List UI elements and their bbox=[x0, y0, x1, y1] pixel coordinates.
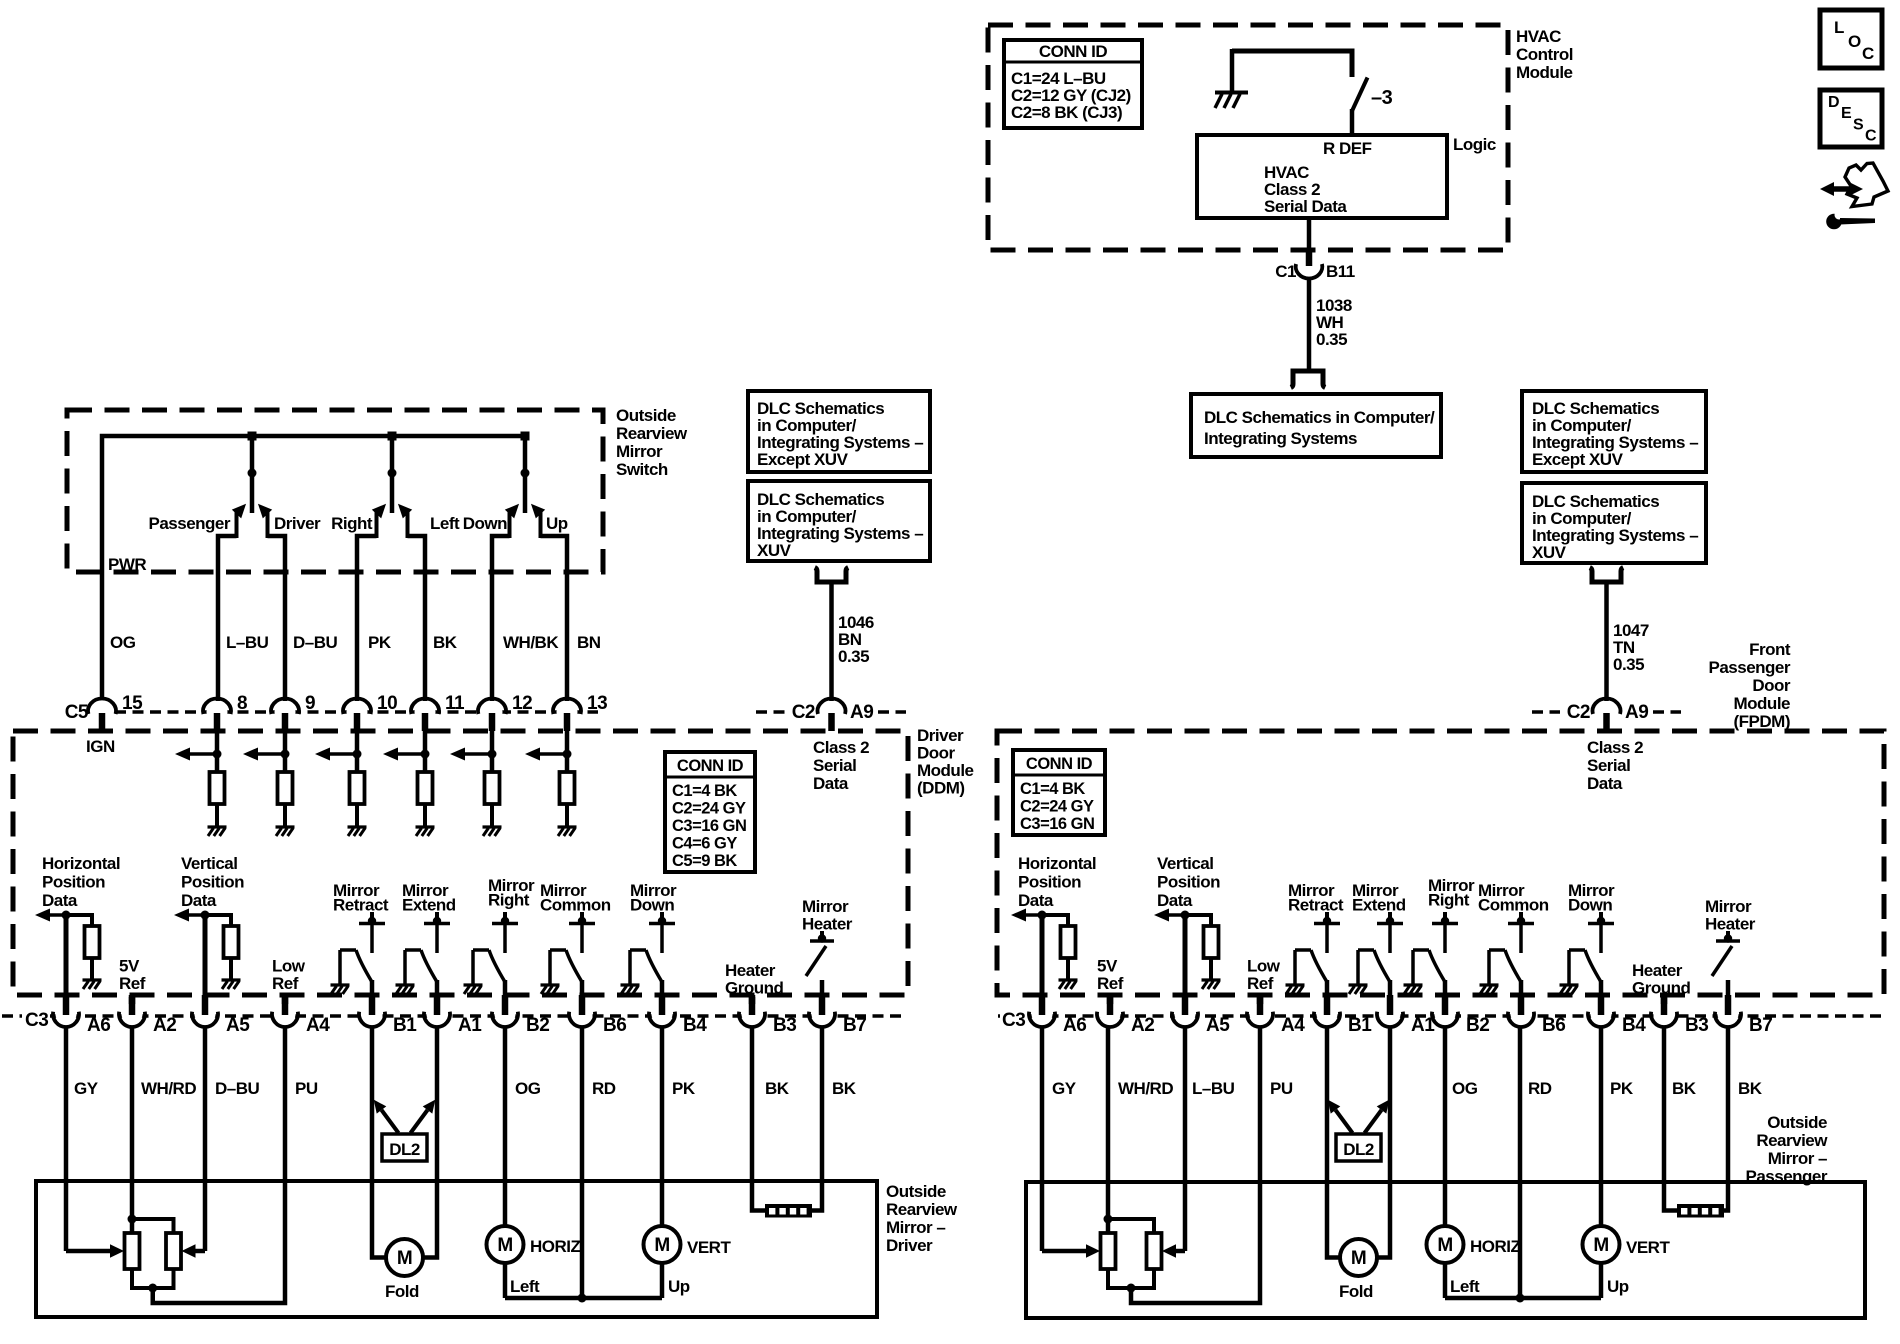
svg-text:Common: Common bbox=[540, 896, 611, 915]
svg-text:15: 15 bbox=[122, 693, 143, 714]
wire switch Right to pin bbox=[357, 536, 377, 701]
svg-text:Position: Position bbox=[181, 873, 244, 892]
wire pot bottoms join bbox=[1108, 1269, 1154, 1288]
svg-text:CONN ID: CONN ID bbox=[1026, 755, 1093, 773]
pin B6 (DDM) bbox=[569, 995, 626, 1036]
connector row C3 dashed line (FPDM) bbox=[998, 1014, 1000, 1018]
switch Mirror Right (DDM) bbox=[464, 876, 536, 1014]
svg-text:L: L bbox=[1834, 18, 1844, 37]
switch Right/Left common pole bbox=[388, 436, 397, 513]
icon DESC bbox=[1820, 90, 1882, 147]
stub 5V Ref A2 (DDM) bbox=[129, 997, 136, 1013]
switch blade Driver bbox=[258, 504, 272, 538]
Vertical position data sensor branch (FPDM) bbox=[1154, 854, 1221, 1014]
svg-text:A4: A4 bbox=[1281, 1015, 1305, 1036]
svg-text:A2: A2 bbox=[153, 1015, 176, 1036]
svg-text:A5: A5 bbox=[226, 1015, 250, 1036]
wire switch Up to pin bbox=[541, 536, 568, 701]
svg-text:PK: PK bbox=[368, 633, 392, 652]
svg-text:BK: BK bbox=[765, 1079, 790, 1098]
svg-text:WH/BK: WH/BK bbox=[503, 633, 559, 652]
connector pin C1 B11 bbox=[1275, 250, 1355, 281]
svg-text:0.35: 0.35 bbox=[1613, 655, 1644, 674]
svg-text:B2: B2 bbox=[1466, 1015, 1489, 1036]
svg-text:HVAC: HVAC bbox=[1516, 27, 1561, 46]
svg-text:Down: Down bbox=[1568, 896, 1612, 915]
svg-text:L–BU: L–BU bbox=[226, 633, 269, 652]
pin B2 (FPDM) bbox=[1432, 995, 1489, 1036]
svg-text:A2: A2 bbox=[1131, 1015, 1154, 1036]
svg-text:R DEF: R DEF bbox=[1323, 139, 1372, 158]
switch Mirror Common (FPDM) bbox=[1478, 881, 1549, 1014]
wire switch Driver to pin bbox=[268, 536, 286, 701]
svg-text:Class 2: Class 2 bbox=[1587, 738, 1643, 757]
label wire colors FPDM outputs bbox=[1052, 1079, 1763, 1098]
svg-text:C1=4 BK: C1=4 BK bbox=[1020, 780, 1085, 798]
svg-text:Heater: Heater bbox=[802, 915, 853, 934]
svg-text:Low: Low bbox=[272, 957, 306, 976]
switch blade Right bbox=[372, 504, 386, 538]
svg-text:C4=6 GY: C4=6 GY bbox=[672, 835, 737, 853]
wire OG to horiz motor (passenger) bbox=[1443, 1026, 1448, 1226]
motor M HORIZ (driver) bbox=[487, 1226, 581, 1263]
Vertical position data sensor branch (DDM) bbox=[174, 854, 244, 1014]
wire switch Passenger to pin bbox=[218, 536, 237, 701]
pin 13 (switch to DDM) bbox=[553, 693, 607, 731]
svg-text:C1=4 BK: C1=4 BK bbox=[672, 782, 737, 800]
svg-text:M: M bbox=[497, 1235, 512, 1256]
svg-text:Position: Position bbox=[1157, 873, 1220, 892]
pin B4 (DDM) bbox=[649, 995, 707, 1036]
svg-text:Module: Module bbox=[1734, 694, 1791, 713]
switch Mirror Right (FPDM) bbox=[1404, 876, 1476, 1014]
pin B7 (FPDM) bbox=[1715, 995, 1772, 1036]
svg-text:PU: PU bbox=[1270, 1079, 1293, 1098]
wire common Left-Up bus bbox=[505, 1296, 662, 1301]
svg-text:WH/RD: WH/RD bbox=[1118, 1079, 1173, 1098]
table CONN ID (FPDM) bbox=[1013, 750, 1105, 835]
pin 12 (switch to DDM) bbox=[478, 693, 532, 731]
connector flank dashes C2/A9 right bbox=[1532, 710, 1560, 714]
svg-text:Data: Data bbox=[1157, 891, 1193, 910]
svg-text:Fold: Fold bbox=[385, 1282, 419, 1301]
svg-text:GY: GY bbox=[1052, 1079, 1077, 1098]
pin A4 (FPDM) bbox=[1247, 995, 1305, 1036]
wire WH/RD to position sensor bbox=[1106, 1026, 1111, 1233]
pin 8 (switch to DDM) bbox=[203, 693, 247, 731]
module HVAC Control Module dashed box bbox=[988, 25, 1508, 250]
svg-text:Up: Up bbox=[668, 1277, 690, 1296]
switch blade Up bbox=[531, 504, 545, 538]
wire A1 to fold motor (passenger) bbox=[1377, 1026, 1390, 1258]
svg-text:BK: BK bbox=[1738, 1079, 1763, 1098]
svg-text:B7: B7 bbox=[1749, 1015, 1772, 1036]
svg-text:Outside: Outside bbox=[616, 406, 676, 425]
pin B4 (FPDM) bbox=[1588, 995, 1646, 1036]
svg-text:Serial: Serial bbox=[1587, 756, 1630, 775]
icon LOC bbox=[1820, 10, 1882, 68]
wire vert motor to Up node (passenger) bbox=[1601, 1263, 1629, 1298]
svg-text:Passenger: Passenger bbox=[149, 514, 231, 533]
svg-text:Passenger: Passenger bbox=[1746, 1167, 1828, 1186]
svg-text:Ground: Ground bbox=[1632, 979, 1690, 998]
svg-text:Retract: Retract bbox=[1288, 896, 1344, 915]
svg-text:WH/RD: WH/RD bbox=[141, 1079, 196, 1098]
svg-text:Control: Control bbox=[1516, 45, 1573, 64]
svg-text:D–BU: D–BU bbox=[293, 633, 338, 652]
wire 1047 TN 0.35 bbox=[1607, 582, 1649, 701]
svg-text:DL2: DL2 bbox=[1343, 1140, 1374, 1159]
motor M VERT (driver) bbox=[644, 1226, 732, 1263]
svg-text:Data: Data bbox=[813, 774, 849, 793]
svg-text:L–BU: L–BU bbox=[1192, 1079, 1235, 1098]
wire ground to switch R DEF bbox=[1232, 51, 1352, 77]
svg-text:Heater: Heater bbox=[725, 961, 776, 980]
wire BK to heater element (left) bbox=[752, 1026, 765, 1211]
svg-text:M: M bbox=[1593, 1235, 1608, 1256]
pin B1 (FPDM) bbox=[1314, 995, 1372, 1036]
svg-text:8: 8 bbox=[237, 693, 247, 714]
svg-text:XUV: XUV bbox=[757, 541, 792, 560]
svg-text:PK: PK bbox=[672, 1079, 696, 1098]
svg-text:Ref: Ref bbox=[272, 974, 299, 993]
svg-text:Fold: Fold bbox=[1339, 1282, 1373, 1301]
stub Heater Ground B3 (DDM) bbox=[749, 997, 756, 1013]
wire junction to right pot element bbox=[132, 1219, 174, 1233]
svg-text:B3: B3 bbox=[1685, 1015, 1708, 1036]
icon shortcut arrows and wrench bbox=[1820, 163, 1888, 229]
ignition feed resistor to ground (wire x=217) bbox=[175, 729, 227, 836]
wire switch Down to pin bbox=[492, 536, 510, 701]
svg-text:C2: C2 bbox=[1567, 702, 1590, 723]
Horizontal position data sensor branch (FPDM) bbox=[1011, 854, 1096, 1014]
pin B3 (FPDM) bbox=[1651, 995, 1708, 1036]
svg-text:Logic: Logic bbox=[1453, 135, 1496, 154]
svg-text:Outside: Outside bbox=[886, 1182, 946, 1201]
svg-text:XUV: XUV bbox=[1532, 543, 1567, 562]
node RD junction (driver) bbox=[578, 1294, 587, 1303]
svg-text:Right: Right bbox=[1428, 891, 1470, 910]
box DLC Schematics in Computer/Integrating Systems bbox=[1191, 394, 1441, 457]
ignition feed resistor to ground (wire x=285) bbox=[243, 729, 295, 836]
svg-text:M: M bbox=[1437, 1235, 1452, 1256]
wire OG to horiz motor bbox=[503, 1026, 508, 1226]
wire GY to position sensor bbox=[1040, 1026, 1045, 1251]
svg-text:CONN ID: CONN ID bbox=[1039, 42, 1108, 61]
svg-text:D: D bbox=[1828, 94, 1839, 111]
module Outside Rearview Mirror Passenger box bbox=[1026, 1182, 1865, 1318]
wire BK to heater element (right) bbox=[812, 1026, 822, 1211]
svg-text:O: O bbox=[1848, 32, 1861, 51]
box DLC Schematics XUV (right) bbox=[1522, 483, 1706, 563]
svg-text:Rearview: Rearview bbox=[1756, 1131, 1828, 1150]
pin 10 (switch to DDM) bbox=[343, 693, 397, 731]
stub Low Ref A4 (DDM) bbox=[282, 997, 289, 1013]
switch Mirror Extend (DDM) bbox=[396, 881, 456, 1014]
wire WH/RD to position sensor bbox=[130, 1026, 135, 1233]
svg-text:A6: A6 bbox=[1063, 1015, 1086, 1036]
svg-text:Mirror: Mirror bbox=[802, 897, 849, 916]
switch blade Down bbox=[505, 504, 519, 538]
svg-text:Horizontal: Horizontal bbox=[1018, 854, 1096, 873]
svg-text:C2=24 GY: C2=24 GY bbox=[1020, 798, 1094, 816]
svg-text:S: S bbox=[1853, 117, 1864, 134]
pin A4 (DDM) bbox=[272, 995, 330, 1036]
svg-text:Heater: Heater bbox=[1705, 915, 1756, 934]
svg-text:Up: Up bbox=[1607, 1277, 1629, 1296]
svg-text:Left: Left bbox=[510, 1277, 540, 1296]
module Outside Rearview Mirror Switch dashed box bbox=[67, 410, 603, 572]
svg-text:B7: B7 bbox=[843, 1015, 866, 1036]
switch blade Left bbox=[398, 504, 412, 538]
connector bracket below DLC (right) bbox=[1590, 568, 1623, 583]
svg-text:Position: Position bbox=[42, 873, 105, 892]
stub Low Ref A4 (FPDM) bbox=[1257, 997, 1264, 1013]
module Outside Rearview Mirror Driver box bbox=[36, 1181, 877, 1317]
switch Down/Up common pole bbox=[521, 436, 530, 513]
wire junction to right pot element bbox=[1108, 1219, 1154, 1233]
svg-text:C2=24 GY: C2=24 GY bbox=[672, 800, 746, 818]
wire 1038 WH 0.35 bbox=[1309, 278, 1352, 369]
svg-text:Outside: Outside bbox=[1767, 1113, 1827, 1132]
svg-text:Door: Door bbox=[1752, 676, 1791, 695]
mirror heater element bbox=[765, 1204, 812, 1218]
svg-text:C1: C1 bbox=[1275, 262, 1296, 281]
svg-text:OG: OG bbox=[1452, 1079, 1478, 1098]
switch Mirror Heater (DDM) bbox=[802, 897, 853, 1014]
wire GY to position sensor bbox=[64, 1026, 69, 1251]
svg-text:11: 11 bbox=[445, 693, 465, 714]
svg-text:Serial: Serial bbox=[813, 756, 856, 775]
svg-text:Class 2: Class 2 bbox=[813, 738, 869, 757]
connector flank dashes C2/A9 bbox=[756, 710, 786, 714]
svg-text:Front: Front bbox=[1749, 640, 1791, 659]
module Front Passenger Door Module dashed box bbox=[997, 731, 1884, 995]
wire B1 to fold motor (passenger) bbox=[1327, 1026, 1340, 1258]
box DLC Schematics Except XUV (left) bbox=[748, 391, 930, 472]
svg-text:Driver: Driver bbox=[917, 726, 964, 745]
module Driver Door Module dashed box bbox=[13, 731, 908, 995]
switch Mirror Down (FPDM) bbox=[1560, 881, 1616, 1014]
reference box DL2 (driver) bbox=[382, 1134, 427, 1161]
node RD junction (passenger) bbox=[1516, 1294, 1525, 1303]
connector bracket to DLC box bbox=[1291, 371, 1325, 388]
svg-text:Passenger: Passenger bbox=[1709, 658, 1791, 677]
wire horiz motor to Left node bbox=[505, 1263, 540, 1298]
wire BK to heater element right (passenger) bbox=[1724, 1026, 1728, 1211]
svg-text:Left: Left bbox=[430, 514, 460, 533]
switch blade Passenger bbox=[232, 504, 246, 538]
svg-text:Vertical: Vertical bbox=[1157, 854, 1214, 873]
connector row C3 dashed line (DDM) bbox=[2, 1014, 22, 1018]
svg-text:Left: Left bbox=[1450, 1277, 1480, 1296]
wire horiz motor to Left node (passenger) bbox=[1445, 1263, 1480, 1298]
svg-text:5V: 5V bbox=[1097, 957, 1118, 976]
wire vert motor to Up node bbox=[662, 1263, 690, 1298]
switch Passenger/Driver common pole bbox=[248, 436, 257, 513]
svg-text:Door: Door bbox=[917, 744, 956, 763]
svg-text:C: C bbox=[1865, 128, 1877, 145]
wire switch Left to pin bbox=[408, 536, 426, 701]
svg-text:Data: Data bbox=[1587, 774, 1623, 793]
svg-text:VERT: VERT bbox=[1626, 1238, 1670, 1257]
pin C2 A9 (FPDM) bbox=[1567, 699, 1649, 731]
table CONN ID (HVAC) bbox=[1004, 40, 1142, 128]
svg-text:C3=16 GN: C3=16 GN bbox=[672, 817, 746, 835]
box DLC Schematics Except XUV (right) bbox=[1522, 391, 1706, 472]
logic box HVAC Class 2 Serial Data bbox=[1197, 135, 1447, 218]
svg-text:Down: Down bbox=[463, 514, 507, 533]
pin A2 (FPDM) bbox=[1097, 995, 1154, 1036]
svg-text:Serial Data: Serial Data bbox=[1264, 197, 1347, 216]
svg-text:Low: Low bbox=[1247, 957, 1281, 976]
svg-text:RD: RD bbox=[1528, 1079, 1552, 1098]
pin A1 (FPDM) bbox=[1377, 995, 1435, 1036]
svg-text:Heater: Heater bbox=[1632, 961, 1683, 980]
svg-text:Ref: Ref bbox=[1097, 974, 1124, 993]
pin A2 (DDM) bbox=[119, 995, 176, 1036]
svg-text:B6: B6 bbox=[603, 1015, 626, 1036]
svg-text:Integrating Systems: Integrating Systems bbox=[1204, 429, 1357, 448]
svg-text:Ref: Ref bbox=[119, 974, 146, 993]
svg-text:Rearview: Rearview bbox=[616, 424, 688, 443]
node position sensor top junction bbox=[1104, 1215, 1113, 1224]
pin A5 (FPDM) bbox=[1172, 995, 1230, 1036]
node bus junction Down/Up bbox=[521, 432, 530, 441]
svg-text:Mirror –: Mirror – bbox=[1768, 1149, 1827, 1168]
svg-text:A5: A5 bbox=[1206, 1015, 1230, 1036]
svg-text:0.35: 0.35 bbox=[838, 647, 869, 666]
pin A1 (DDM) bbox=[424, 995, 482, 1036]
svg-text:C: C bbox=[1862, 44, 1874, 63]
svg-text:BK: BK bbox=[433, 633, 458, 652]
Horizontal position data sensor branch (DDM) bbox=[35, 854, 120, 1014]
svg-text:HORIZ: HORIZ bbox=[530, 1237, 581, 1256]
svg-text:C2=8 BK (CJ3): C2=8 BK (CJ3) bbox=[1011, 103, 1122, 122]
svg-text:C3: C3 bbox=[1002, 1010, 1025, 1031]
pin B3 (DDM) bbox=[739, 995, 796, 1036]
node pot bottom junction bbox=[148, 1284, 157, 1293]
pin 15 (switch to DDM) bbox=[88, 693, 143, 731]
wire PWR bus bbox=[102, 436, 525, 700]
wire A1 to fold motor bbox=[423, 1026, 437, 1258]
svg-text:PK: PK bbox=[1610, 1079, 1634, 1098]
svg-text:Extend: Extend bbox=[1352, 896, 1406, 915]
svg-text:13: 13 bbox=[587, 693, 607, 714]
svg-text:Except XUV: Except XUV bbox=[1532, 450, 1624, 469]
wire 1046 BN 0.35 bbox=[832, 582, 874, 701]
label wire colors switch outputs bbox=[110, 633, 601, 652]
pin 9 (switch to DDM) bbox=[271, 693, 315, 731]
svg-text:B2: B2 bbox=[526, 1015, 549, 1036]
svg-text:M: M bbox=[397, 1248, 412, 1269]
svg-text:C5: C5 bbox=[65, 702, 89, 723]
pin C2 A9 (DDM) bbox=[792, 699, 874, 731]
box DLC Schematics XUV (left) bbox=[748, 481, 930, 561]
ignition feed resistor to ground (wire x=357) bbox=[315, 729, 367, 836]
svg-text:Mirror –: Mirror – bbox=[886, 1218, 945, 1237]
connector bracket below DLC (left) bbox=[815, 568, 848, 583]
svg-text:(DDM): (DDM) bbox=[917, 779, 965, 798]
svg-text:BK: BK bbox=[1672, 1079, 1697, 1098]
svg-text:C3=16 GN: C3=16 GN bbox=[1020, 815, 1094, 833]
svg-text:D–BU: D–BU bbox=[215, 1079, 260, 1098]
reference box DL2 (passenger) bbox=[1336, 1134, 1381, 1161]
pin A6 (FPDM) bbox=[1029, 995, 1086, 1036]
svg-text:Mirror: Mirror bbox=[1705, 897, 1752, 916]
pin A6 (DDM) bbox=[53, 995, 110, 1036]
svg-text:B1: B1 bbox=[1348, 1015, 1372, 1036]
ignition feed resistor to ground (wire x=492) bbox=[450, 729, 502, 836]
svg-text:PU: PU bbox=[295, 1079, 318, 1098]
svg-text:M: M bbox=[1351, 1248, 1366, 1269]
motor M VERT (passenger) bbox=[1583, 1226, 1671, 1263]
mirror heater element (passenger) bbox=[1677, 1204, 1724, 1218]
svg-text:B6: B6 bbox=[1542, 1015, 1565, 1036]
wire BK to heater element left (passenger) bbox=[1664, 1026, 1677, 1211]
motor M Fold (passenger) bbox=[1339, 1239, 1377, 1301]
svg-text:A4: A4 bbox=[306, 1015, 330, 1036]
position sensor pot element left bbox=[1101, 1233, 1116, 1269]
svg-text:(FPDM): (FPDM) bbox=[1734, 712, 1790, 731]
motor M HORIZ (passenger) bbox=[1427, 1226, 1521, 1263]
wire RD to common node bbox=[580, 1026, 585, 1298]
svg-text:A1: A1 bbox=[458, 1015, 482, 1036]
svg-text:Data: Data bbox=[1018, 891, 1054, 910]
svg-text:Down: Down bbox=[630, 896, 674, 915]
svg-text:Module: Module bbox=[917, 761, 974, 780]
svg-text:B4: B4 bbox=[683, 1015, 707, 1036]
wire D-BU to position sensor bbox=[203, 1026, 208, 1251]
ignition feed resistor to ground (wire x=425) bbox=[383, 729, 435, 836]
svg-text:B3: B3 bbox=[773, 1015, 796, 1036]
svg-text:Switch: Switch bbox=[616, 460, 668, 479]
switch Mirror Extend (FPDM) bbox=[1349, 881, 1406, 1014]
wire RD to common node (passenger) bbox=[1518, 1026, 1523, 1298]
svg-text:Data: Data bbox=[42, 891, 78, 910]
switch Mirror Retract (FPDM) bbox=[1286, 881, 1344, 1014]
node pot bottom junction bbox=[1127, 1284, 1136, 1293]
node bus junction Right/Left bbox=[388, 432, 397, 441]
svg-text:–3: –3 bbox=[1371, 87, 1393, 109]
svg-text:Right: Right bbox=[331, 514, 373, 533]
pin B1 (DDM) bbox=[359, 995, 417, 1036]
wire common Left-Up bus (passenger) bbox=[1445, 1296, 1601, 1301]
svg-text:Driver: Driver bbox=[886, 1236, 933, 1255]
svg-text:Except XUV: Except XUV bbox=[757, 450, 849, 469]
wire R DEF box to C1 bbox=[1307, 218, 1312, 251]
svg-text:A9: A9 bbox=[850, 702, 873, 723]
wire pot bottom to PU return bbox=[1131, 1026, 1260, 1303]
svg-text:DLC Schematics in Computer/: DLC Schematics in Computer/ bbox=[1204, 408, 1435, 427]
svg-text:BN: BN bbox=[577, 633, 601, 652]
position sensor pot element right bbox=[1147, 1233, 1162, 1269]
svg-text:M: M bbox=[654, 1235, 669, 1256]
svg-text:B1: B1 bbox=[393, 1015, 417, 1036]
wire D-BU to position sensor bbox=[1183, 1026, 1188, 1251]
node position sensor top junction bbox=[128, 1215, 137, 1224]
svg-text:10: 10 bbox=[377, 693, 397, 714]
svg-text:Up: Up bbox=[546, 514, 568, 533]
wire pot bottoms join bbox=[132, 1269, 174, 1288]
position sensor pot element left bbox=[125, 1233, 140, 1269]
svg-text:VERT: VERT bbox=[687, 1238, 731, 1257]
svg-text:OG: OG bbox=[515, 1079, 541, 1098]
svg-text:PWR: PWR bbox=[108, 555, 146, 574]
ground (HVAC internal) bbox=[1215, 49, 1248, 108]
svg-text:Module: Module bbox=[1516, 63, 1573, 82]
ignition feed resistor to ground (wire x=567) bbox=[525, 729, 577, 836]
